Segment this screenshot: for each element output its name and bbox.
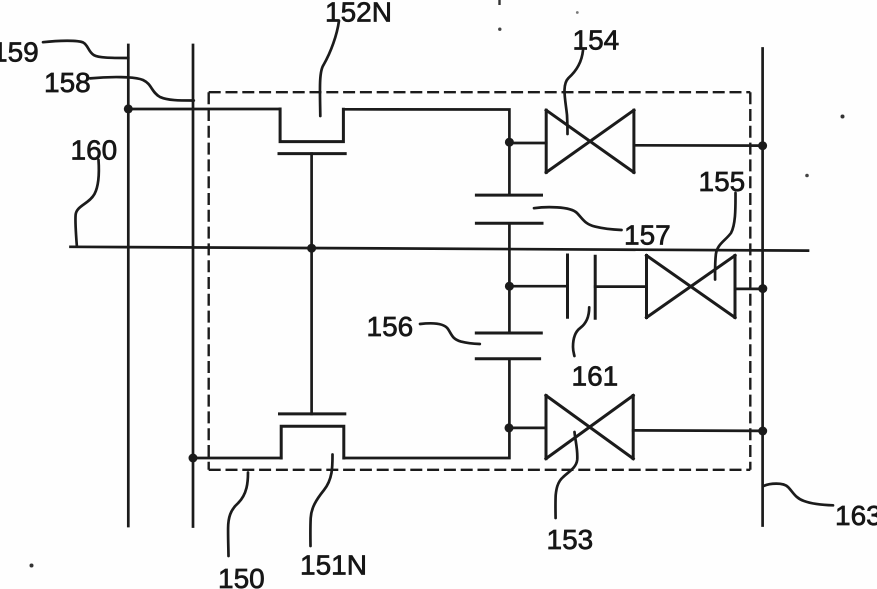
bowtie element 155 <box>647 256 736 318</box>
leader for label 160 <box>75 160 98 246</box>
wire: gate column joining 152N gate, row 160 and 151N gate <box>310 154 313 414</box>
wire: right vertical data line (line 163) <box>761 49 764 526</box>
transistor Q151N gate electrode <box>280 412 345 415</box>
transistor Q152N gate electrode <box>279 152 345 155</box>
junction dot node to bowtie 153 <box>505 423 514 432</box>
dashed pixel boundary box right edge <box>749 92 751 470</box>
scan speck top tick <box>498 0 500 5</box>
junction dot line 163 at bowtie 155 row <box>758 284 767 293</box>
leader for label 163 <box>764 484 834 506</box>
dashed pixel boundary box top edge <box>209 91 751 93</box>
capacitor C156 <box>476 333 541 359</box>
svg-text:156: 156 <box>367 311 414 342</box>
leader for label 157 <box>534 207 622 230</box>
wire: 151N drain to node corner and up to junction <box>344 359 510 458</box>
junction dot gate column on row line 160 <box>307 244 316 253</box>
junction dot node to capacitor 161 <box>505 282 514 291</box>
leader for label 161 <box>573 307 589 356</box>
scan speck right <box>805 174 809 178</box>
wire: top node from line 159 to transistor 152N source <box>128 108 280 111</box>
svg-text:161: 161 <box>572 361 619 392</box>
transistor Q152N channel (source/drain step) <box>280 109 343 142</box>
svg-text:159: 159 <box>0 36 39 67</box>
leader for label 156 <box>420 323 480 344</box>
bowtie element 154 <box>546 110 634 172</box>
wire: bowtie 155 to line 163 <box>735 288 763 291</box>
scan speck below top <box>498 28 501 31</box>
junction dot node to bowtie 154 <box>505 138 514 147</box>
scan speck upper right <box>841 115 845 119</box>
wire: junction to capacitor 161 <box>509 285 567 288</box>
junction dot on line 159 at top node <box>124 104 133 113</box>
wire: bowtie 154 to line 163 <box>634 144 763 147</box>
bowtie element 153 <box>546 396 633 459</box>
capacitor C161 (series, vertical plates) <box>568 255 596 318</box>
svg-text:151N: 151N <box>300 550 367 581</box>
dashed pixel boundary box left edge <box>207 92 209 470</box>
svg-text:153: 153 <box>547 524 594 555</box>
leader for label 150 <box>228 473 248 557</box>
svg-text:158: 158 <box>44 67 91 98</box>
wire: node vertical between capacitor 157 and capacitor 156 <box>508 223 511 333</box>
wire: bottom node from line 158 to transistor 151N <box>193 457 281 460</box>
svg-text:160: 160 <box>71 135 118 166</box>
leader for label 151N <box>310 455 332 547</box>
scan speck faint near 154 <box>576 11 579 14</box>
wire: second vertical scan bus (line 158) <box>192 45 195 527</box>
leader for label 159 <box>43 41 128 58</box>
dashed pixel boundary box bottom edge <box>209 469 751 471</box>
svg-text:152N: 152N <box>325 0 392 28</box>
junction dot line 163 at bowtie 154 row <box>758 141 767 150</box>
wire: capacitor 161 to bowtie 155 <box>595 285 646 288</box>
transistor Q151N channel (source/drain step) <box>281 426 344 458</box>
leader for label 152N <box>320 21 339 116</box>
wire: bowtie 153 to line 163 <box>633 429 762 432</box>
wire: from 152N drain to node corner <box>343 109 509 195</box>
leader for label 158 <box>90 77 194 100</box>
leader for label 153 <box>555 432 577 518</box>
wire: left vertical scan bus (line 159) <box>127 45 130 526</box>
junction dot line 163 at bowtie 153 row <box>758 427 767 436</box>
svg-text:157: 157 <box>624 220 671 251</box>
capacitor C157 <box>476 195 542 223</box>
wire: junction to bowtie 153 <box>509 427 546 430</box>
leader for label 154 <box>564 50 583 134</box>
svg-text:155: 155 <box>699 166 746 197</box>
wire: horizontal row line (line 160) <box>71 247 809 251</box>
scan speck bottom left <box>30 564 34 568</box>
leader for label 155 <box>715 193 735 280</box>
svg-text:163: 163 <box>835 500 877 531</box>
svg-text:150: 150 <box>218 563 265 589</box>
wire: junction to bowtie 154 <box>509 142 546 145</box>
junction dot on line 158 at bottom node <box>189 454 198 463</box>
svg-text:154: 154 <box>573 25 620 56</box>
